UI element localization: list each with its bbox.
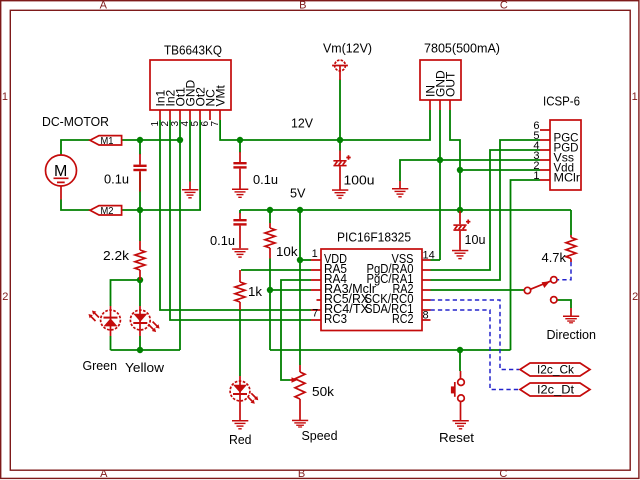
wire yellow LED top (139, 280, 141, 306)
wire ground net to ground symbol (400, 160, 440, 181)
wire cap C1 bottom lead (139, 172, 141, 211)
junction M2 cap C1 2.2k (137, 207, 143, 213)
svg-text:B: B (298, 468, 305, 480)
ground under TB6643KQ GND pin (189, 182, 191, 190)
junction MCLR reset (457, 347, 463, 353)
wire MCLR row 10k to reset (270, 349, 511, 351)
junction ground net (437, 157, 443, 163)
svg-text:10u: 10u (465, 232, 486, 247)
supply symbol Vm(12V) (332, 60, 348, 80)
wire In2 to PIC RC3 (170, 120, 311, 320)
wire 4.7k top (570, 210, 572, 235)
junction 5V 7805 OUT 10u (457, 207, 463, 213)
junction 5V VDD column (297, 207, 303, 213)
IC U2 7805 box (420, 60, 461, 100)
wire 7805 GND down (439, 110, 441, 260)
svg-text:DC-MOTOR: DC-MOTOR (42, 114, 109, 129)
svg-text:8: 8 (423, 310, 429, 322)
wire Vm supply to 12V rail (339, 80, 341, 141)
wire ICSP PGD to PIC RA0 (431, 150, 541, 270)
svg-text:Speed: Speed (302, 428, 338, 443)
ground for 7805 GND net (399, 181, 401, 188)
wire GND pin of TB6643KQ (189, 120, 191, 182)
IC U3 PIC16F18325 box (321, 249, 422, 331)
svg-text:VMt: VMt (213, 85, 227, 107)
wire 1k to PIC RA5 row (241, 269, 311, 271)
svg-text:TB6643KQ: TB6643KQ (164, 43, 222, 58)
svg-text:I2c_Dt: I2c_Dt (537, 383, 575, 397)
wire ICSP PGC to PIC RA1 (431, 140, 541, 280)
resistor 2.2k (139, 241, 141, 280)
junction 5V 10k (267, 207, 273, 213)
wire ICSP Vss row (440, 159, 540, 161)
resistor 1k (239, 270, 241, 310)
net tag M2 (90, 206, 122, 215)
dashed link 4.7k to switch (558, 262, 572, 280)
wire PIC VSS to 7805 GND column (431, 259, 441, 261)
svg-text:10k: 10k (276, 244, 298, 259)
svg-text:Red: Red (229, 432, 252, 447)
ground under pot (292, 420, 308, 428)
wire M2 tag to Ot2 (121, 120, 200, 210)
net tag I2c_Dt (520, 383, 590, 396)
svg-text:B: B (299, 0, 306, 12)
junction M1 Ot1 (177, 137, 183, 143)
wire direction switch lower throw to ground (558, 300, 572, 308)
capacitor C3 0.1u (233, 213, 246, 248)
junction 12V Vm (337, 137, 343, 143)
wire VDD column 5V to pot top (299, 210, 301, 365)
svg-text:M: M (54, 163, 67, 180)
wire 12V rail VMt to 7805 IN (220, 110, 430, 140)
svg-text:PIC16F18325: PIC16F18325 (337, 230, 411, 245)
junction PIC VDD pot column (297, 257, 303, 263)
wire 10k top (269, 210, 271, 223)
motor M (46, 154, 77, 200)
wire PIC RA2 to direction switch (431, 289, 525, 291)
svg-text:2: 2 (632, 291, 638, 303)
wire M1 tag to Ot1 (122, 139, 180, 141)
wire 5V rail down to cap C3 (239, 210, 241, 214)
LED green (89, 306, 121, 336)
svg-text:Vm(12V): Vm(12V) (323, 41, 372, 56)
svg-text:1: 1 (533, 170, 539, 182)
svg-text:M1: M1 (101, 136, 114, 147)
IC U1 TB6643KQ box (150, 60, 231, 110)
svg-text:1: 1 (312, 248, 318, 260)
wire RA3 row (270, 289, 311, 291)
wire 2.2k bottom junction left to green LED (111, 280, 141, 306)
svg-text:Reset: Reset (439, 430, 474, 445)
polarized capacitor 100u (333, 151, 350, 190)
wire 2.2k top (139, 210, 141, 241)
wire C2 top lead (239, 140, 241, 153)
svg-text:Green: Green (83, 358, 118, 373)
U3 left pin stubs (311, 260, 321, 320)
U3 right pin stubs (422, 260, 431, 320)
svg-text:7: 7 (312, 307, 318, 319)
dashed bus SCK to I2c_Ck (431, 300, 520, 370)
capacitor C2 0.1u (233, 152, 246, 189)
svg-text:1k: 1k (248, 284, 263, 299)
svg-text:1: 1 (2, 91, 8, 103)
svg-text:RC2: RC2 (392, 311, 414, 326)
svg-text:7: 7 (210, 121, 221, 127)
resistor 4.7k (570, 235, 572, 262)
wire green LED bottom (110, 336, 112, 350)
wire 1k bottom to red LED (239, 310, 241, 376)
wire LED bottoms to Ot1 column (111, 349, 181, 351)
svg-text:5V: 5V (290, 186, 306, 201)
svg-text:Direction: Direction (547, 327, 597, 342)
svg-text:4.7k: 4.7k (542, 250, 567, 265)
dashed bus SDA to I2c_Dt (431, 310, 520, 390)
LED yellow (130, 306, 159, 336)
wire In1 to PIC RC4 (160, 120, 311, 310)
junction 12V cap C2 (237, 137, 243, 143)
U1 pin stubs (160, 110, 220, 120)
svg-text:0.1u: 0.1u (104, 172, 129, 187)
svg-text:2.2k: 2.2k (103, 248, 130, 263)
svg-text:A: A (100, 0, 108, 12)
net tag I2c_Ck (520, 363, 590, 376)
ground under C2 (232, 189, 248, 199)
switch S1 direction (524, 277, 557, 303)
wire Ot1 down to LED return (179, 120, 181, 350)
pot wiper arrow (290, 379, 293, 381)
ground under red LED (232, 420, 248, 430)
pushbutton reset (451, 371, 464, 420)
wire ICSP Vdd row (460, 169, 540, 171)
svg-text:2: 2 (2, 291, 8, 303)
polarized capacitor 10u (453, 211, 470, 250)
J1 pin stubs (540, 130, 550, 180)
junction M1 cap C1 (137, 137, 143, 143)
svg-text:1: 1 (632, 91, 638, 103)
svg-text:I2c_Ck: I2c_Ck (537, 363, 575, 377)
ground under 10u (452, 250, 468, 259)
ground under direction switch (570, 308, 572, 316)
svg-text:Yellow: Yellow (125, 360, 165, 375)
svg-text:OUT: OUT (443, 71, 457, 97)
wire pot wiper to PIC RA4 row (281, 280, 311, 380)
wire cap C1 top lead (139, 140, 141, 155)
wire 10k bottom to RA3 junction (269, 259, 271, 351)
wire motor to M1 tag (61, 140, 90, 154)
svg-text:MClr: MClr (554, 171, 581, 185)
ground under reset (453, 420, 469, 430)
wire 100u top green (339, 140, 341, 151)
svg-text:C: C (500, 0, 508, 12)
junction LED bottoms (137, 347, 143, 353)
svg-text:0.1u: 0.1u (210, 233, 235, 248)
svg-text:M2: M2 (101, 206, 114, 217)
potentiometer 50k (299, 365, 301, 420)
wire reset button top (459, 350, 461, 371)
junction ICSP Vdd (457, 167, 463, 173)
svg-text:50k: 50k (312, 384, 335, 399)
wire yellow LED bottom (139, 336, 141, 350)
svg-text:0.1u: 0.1u (253, 172, 278, 187)
resistor 10k (269, 223, 271, 259)
junction 10k RA3 MCLR (267, 287, 273, 293)
wire 7805 OUT to 5V (450, 110, 460, 213)
capacitor C1 0.1u (133, 154, 146, 192)
wire ICSP MClr down (511, 180, 541, 350)
wire PIC VDD row (300, 259, 311, 261)
ground under C3 (232, 248, 248, 257)
junction 2.2k LEDs (137, 277, 143, 283)
LED red (230, 376, 258, 420)
svg-text:100u: 100u (344, 173, 375, 188)
connector J1 ICSP-6 box (550, 120, 581, 190)
ground under 100u (332, 189, 348, 198)
svg-text:14: 14 (423, 250, 435, 262)
svg-text:A: A (100, 468, 108, 480)
svg-text:7805(500mA): 7805(500mA) (424, 41, 500, 56)
wire 5V rail (240, 209, 571, 211)
svg-text:RC3: RC3 (324, 311, 347, 326)
svg-text:C: C (499, 468, 507, 480)
net tag M1 (90, 136, 122, 145)
svg-text:ICSP-6: ICSP-6 (543, 94, 580, 109)
wire motor to M2 tag (61, 200, 90, 211)
U2 pin stubs (430, 100, 450, 110)
svg-text:12V: 12V (291, 116, 313, 131)
